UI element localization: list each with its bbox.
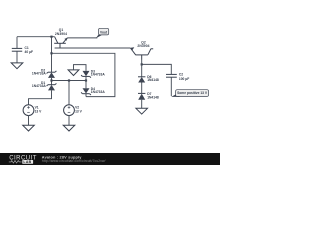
- voltage source V1 13 V: [23, 105, 42, 116]
- svg-text:40 µF: 40 µF: [25, 50, 34, 54]
- diode D4 zener 1N4733A: [81, 87, 105, 95]
- svg-text:1N4733A: 1N4733A: [32, 71, 47, 75]
- diode D3 zener 1N4733A: [81, 70, 105, 78]
- wire between D3 and D4: [85, 76, 87, 88]
- wire D4 bottom to bracket corner: [85, 94, 87, 97]
- ground feeding D3 (jog): [68, 65, 86, 76]
- voltage source V2 13 V: [64, 105, 83, 116]
- capacitor C2: [166, 72, 189, 81]
- svg-text:1N4148: 1N4148: [147, 96, 159, 100]
- wire between D2 and D1: [51, 78, 53, 85]
- wire mid rail node C to middle column: [52, 80, 87, 82]
- svg-text:Some positive 13 V: Some positive 13 V: [177, 91, 208, 95]
- wire bracket: node B right, down, to D4 bottom: [52, 53, 115, 96]
- transistor Q1: [54, 28, 67, 48]
- svg-text:2N3904: 2N3904: [55, 32, 67, 36]
- wire Q2 base to D6: [141, 60, 143, 77]
- svg-text:2N3904: 2N3904: [137, 44, 149, 48]
- wire V1 to ground: [28, 116, 30, 126]
- svg-text:1N4148: 1N4148: [147, 78, 159, 82]
- node A: junction dot Q1 collector / top rail / left column: [50, 36, 52, 38]
- node D: junction dot V2 tap on mid rail: [68, 79, 70, 81]
- flag Some positive 13 V: [171, 90, 209, 97]
- wire between D6 and D7: [141, 83, 143, 94]
- wire Q2 base column to C2: [142, 64, 172, 74]
- svg-text:1N4733A: 1N4733A: [91, 73, 106, 77]
- diode D2 zener 1N4733A: [32, 69, 57, 78]
- node B: junction dot left column / bracket wire: [50, 52, 52, 54]
- wire C2 bottom to flag: [170, 77, 172, 96]
- svg-text:Vout: Vout: [100, 30, 108, 34]
- wire Q1 base to Q2 emitter: [55, 47, 131, 49]
- svg-text:13 V: 13 V: [75, 110, 83, 114]
- diode D6 1N4148: [138, 75, 159, 82]
- flag Vout: [96, 28, 109, 38]
- wire V2 to ground: [68, 116, 70, 126]
- diode D1 zener 1N4733A: [32, 81, 57, 90]
- wire left column upper (node A to D2): [51, 37, 53, 72]
- ground below D7: [136, 108, 148, 114]
- wire top rail from C1 to Q1 collector: [17, 36, 55, 38]
- svg-text:1N4733A: 1N4733A: [32, 84, 47, 88]
- node E: junction dot mid rail / middle column: [85, 79, 87, 81]
- node F: junction dot Q2 base column / C2 branch: [141, 63, 143, 65]
- svg-text:LAB: LAB: [23, 160, 31, 164]
- diode D7 1N4148: [138, 92, 159, 100]
- wire Q1 emitter to Vout: [67, 37, 97, 39]
- capacitor C1: [12, 46, 33, 54]
- svg-text:100 µF: 100 µF: [179, 77, 189, 81]
- svg-text:13 V: 13 V: [35, 110, 43, 114]
- wire C1 bottom lead: [16, 51, 18, 63]
- node C: junction dot left column / mid rail: [50, 79, 52, 81]
- wire D1 bottom to V1: [29, 90, 52, 104]
- ground below V1: [23, 125, 35, 131]
- ground below V2: [63, 125, 75, 131]
- ground below C1: [11, 63, 23, 69]
- wire D7 to ground: [141, 100, 143, 109]
- wire C1 top lead: [16, 37, 18, 49]
- wire V2 top lead: [68, 81, 70, 105]
- svg-text:1N4733A: 1N4733A: [91, 90, 106, 94]
- svg-text:http://www.circuitlab.com/circ: http://www.circuitlab.com/circuit/7cu2vw…: [42, 159, 106, 163]
- svg-text:C2: C2: [179, 72, 183, 76]
- footer bar: [0, 153, 220, 165]
- transistor Q2: [130, 40, 153, 59]
